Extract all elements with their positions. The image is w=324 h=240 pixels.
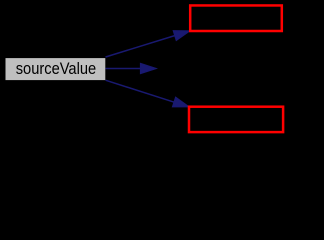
bottom red node (truncated, label hidden): [189, 107, 283, 132]
edge sourceValue to bottom red node (wire): [106, 80, 190, 107]
edge sourceValue to top red node (wire): [106, 31, 191, 57]
svg-text:sourceValue: sourceValue: [16, 59, 97, 78]
arrowhead bottom: [172, 97, 189, 107]
top red node (truncated, label hidden): [190, 5, 282, 31]
arrowhead top: [173, 31, 190, 41]
node sourceValue (filled box): [6, 58, 106, 80]
edge sourceValue to middle (invisible) node (wire): [106, 63, 157, 73]
arrowhead middle: [140, 63, 156, 73]
